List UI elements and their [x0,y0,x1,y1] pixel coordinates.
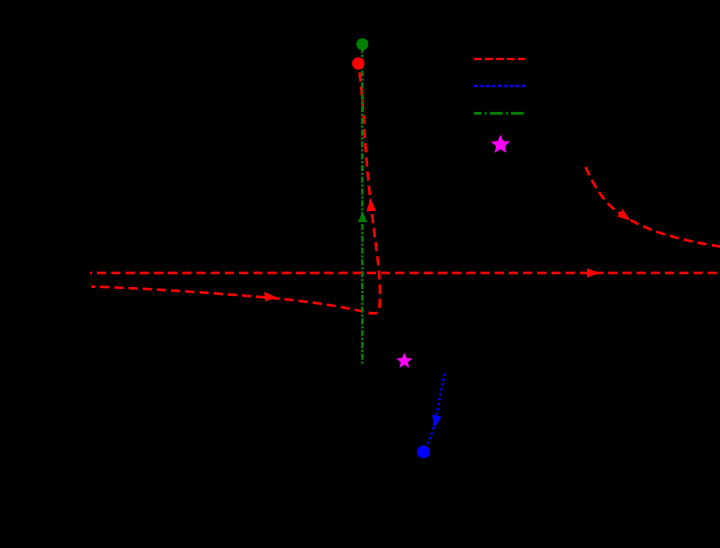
legend green dash-dot line sample [474,112,525,115]
green upward arrow [358,212,367,222]
red trajectory left+ascending branch [91,66,380,313]
red equilibrium dot [352,57,364,69]
magenta star upper [491,135,510,153]
blue endpoint dot [417,445,430,458]
legend red dashed line sample [474,58,525,60]
rightward arrow on red left branch [264,292,277,301]
arrow on horizontal red line [587,268,600,277]
down-right arrow on red right branch [617,209,630,221]
green dash-dot vertical nullcline [361,47,364,365]
legend blue dotted line sample [474,85,525,87]
blue downward arrow [432,415,441,429]
green equilibrium dot [356,38,368,50]
horizontal red dashed nullcline [90,272,720,275]
magenta star lower [396,353,412,368]
blue dotted trajectory [426,374,445,449]
upward arrow on red ascending branch [367,198,376,212]
red trajectory right branch [586,167,720,247]
